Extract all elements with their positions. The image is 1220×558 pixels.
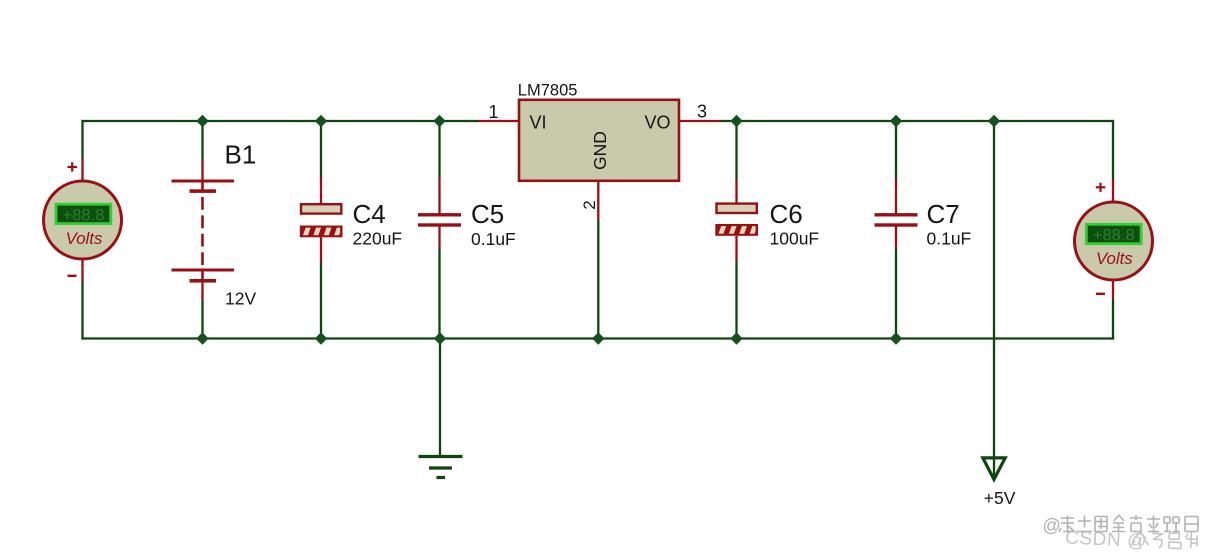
svg-text:@: @ xyxy=(1043,516,1061,536)
wire C7 drop xyxy=(895,121,897,339)
capacitor C4 (electrolytic) xyxy=(292,177,342,263)
node junction top battery xyxy=(196,115,208,127)
capacitor C5 xyxy=(418,177,461,249)
wire top rail left (net VI) xyxy=(81,120,478,122)
svg-text:B1: B1 xyxy=(225,140,257,170)
ground xyxy=(419,457,463,478)
svg-text:3: 3 xyxy=(697,102,707,122)
node junction bottom battery xyxy=(196,332,208,344)
node junction bottom C6 xyxy=(730,332,742,344)
svg-text:0.1uF: 0.1uF xyxy=(471,229,516,249)
svg-text:VI: VI xyxy=(530,113,547,133)
svg-text:C4: C4 xyxy=(353,199,386,229)
wire top rail right (net VO) xyxy=(720,120,1114,122)
node junction top +5V xyxy=(988,115,1000,127)
power flag +5V arrow xyxy=(983,458,1016,508)
node junction top C6 xyxy=(730,115,742,127)
svg-text:Volts: Volts xyxy=(66,229,103,248)
node junction top C7 xyxy=(890,115,902,127)
svg-text:Volts: Volts xyxy=(1096,249,1133,268)
svg-text:12V: 12V xyxy=(225,289,256,309)
svg-text:CSDN @: CSDN @ xyxy=(1065,528,1148,553)
wire C4 drop xyxy=(320,121,322,339)
wire ground drop xyxy=(439,339,441,457)
wire C5 drop xyxy=(438,121,440,339)
node junction bottom C7 xyxy=(890,332,902,344)
node junction top C5 xyxy=(433,115,445,127)
wire +5V drop xyxy=(993,121,995,478)
svg-text:220uF: 220uF xyxy=(353,229,403,249)
svg-text:100uF: 100uF xyxy=(770,229,820,249)
wire right rail vertical xyxy=(1112,120,1114,340)
voltmeter PM2 (right) xyxy=(1075,179,1153,300)
wire battery drop xyxy=(201,121,203,339)
svg-text:GND: GND xyxy=(590,131,610,170)
node junction bottom C4 xyxy=(315,332,327,344)
svg-text:C6: C6 xyxy=(770,199,803,229)
wire C6 drop xyxy=(735,121,737,339)
svg-text:C5: C5 xyxy=(471,199,504,229)
wire bottom rail (net GND) xyxy=(81,337,1114,339)
svg-text:LM7805: LM7805 xyxy=(518,82,578,100)
U1 pin 2 xyxy=(580,180,599,221)
watermark line 2 xyxy=(1065,527,1198,555)
svg-text:+88.8: +88.8 xyxy=(1093,227,1135,245)
op-amp U1 LM7805 regulator body xyxy=(518,82,679,181)
node junction bottom U1 pin2 xyxy=(592,332,604,344)
svg-text:+88.8: +88.8 xyxy=(63,207,105,225)
capacitor C7 xyxy=(875,179,918,249)
voltmeter PM1 (left) xyxy=(44,159,122,282)
battery B1 xyxy=(172,160,235,301)
capacitor C6 (electrolytic) xyxy=(708,179,758,262)
svg-text:+5V: +5V xyxy=(984,488,1016,508)
svg-text:1: 1 xyxy=(488,102,498,122)
svg-text:2: 2 xyxy=(580,200,599,209)
U1 pin 1 xyxy=(478,102,520,122)
node junction bottom C5/ground xyxy=(434,332,446,344)
svg-text:0.1uF: 0.1uF xyxy=(927,229,972,249)
U1 pin 3 xyxy=(678,102,720,122)
svg-text:C7: C7 xyxy=(927,199,960,229)
wire U1 pin2 drop xyxy=(597,220,599,339)
svg-text:VO: VO xyxy=(645,113,671,133)
node junction top C4 xyxy=(315,115,327,127)
watermark line 1 xyxy=(1043,515,1199,536)
wire left rail vertical xyxy=(81,120,83,340)
